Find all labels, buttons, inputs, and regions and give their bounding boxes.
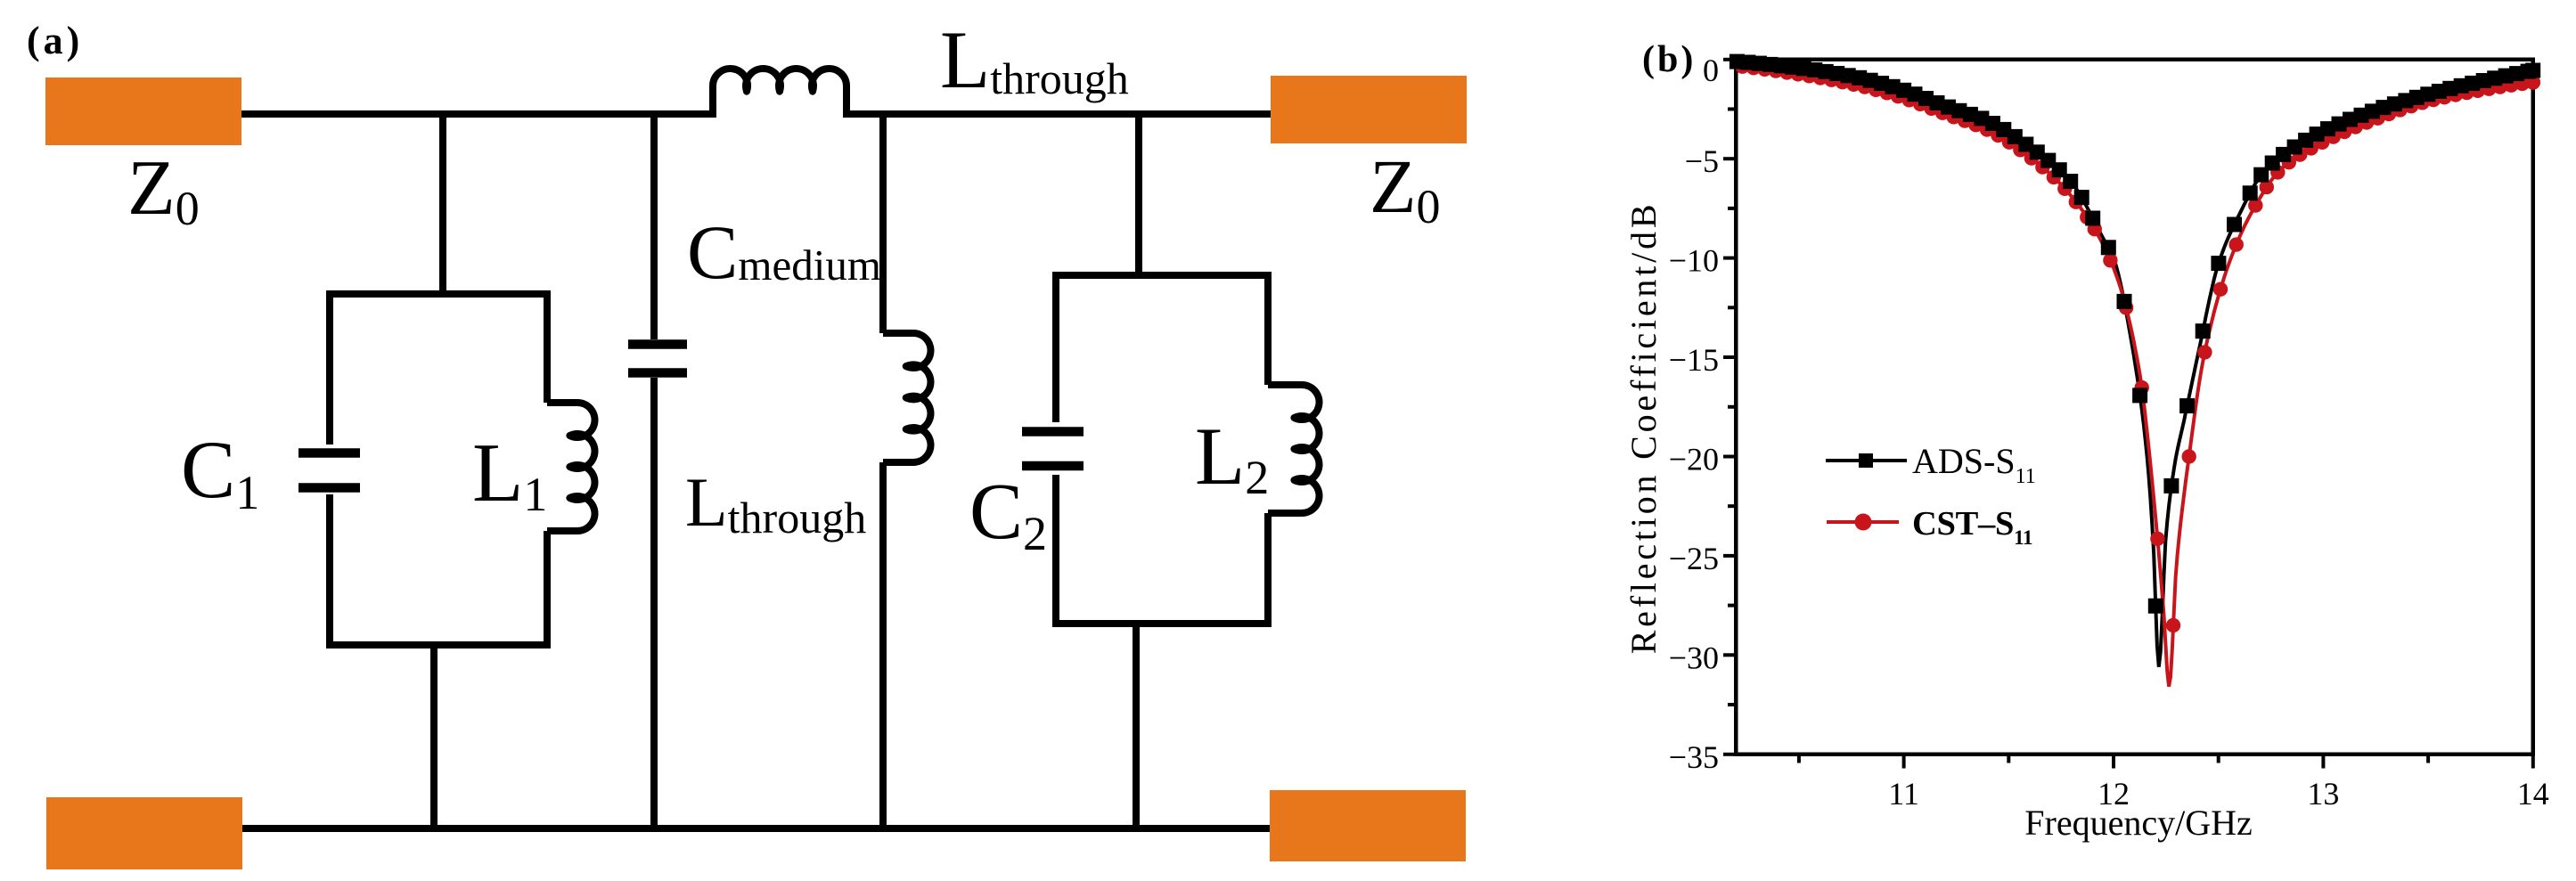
svg-text:0: 0	[1703, 53, 1719, 88]
y tick labels	[1669, 53, 1719, 775]
label Lthrough (shunt, middle)	[685, 463, 866, 542]
svg-text:Frequency/GHz: Frequency/GHz	[2024, 803, 2252, 843]
svg-text:Z0: Z0	[1370, 143, 1441, 233]
capacitor-inductor tank C2 L2 frame	[1056, 275, 1268, 624]
y axis minor ticks	[1728, 109, 1734, 705]
ground pad (bottom-left)	[46, 797, 242, 869]
legend CST-S11	[1827, 505, 2032, 549]
svg-text:C1: C1	[181, 424, 259, 519]
curve ADS-S11 (black line)	[1736, 61, 2533, 667]
port P1 microstrip pad (top-left)	[45, 77, 241, 145]
capacitor C2 plates	[1022, 432, 1084, 467]
shunt capacitor Cmedium branch	[650, 114, 658, 828]
svg-text:Z0: Z0	[127, 145, 200, 235]
svg-text:−30: −30	[1669, 640, 1719, 675]
svg-text:L1: L1	[472, 427, 547, 521]
shunt inductor Lthrough branch	[879, 114, 887, 828]
label Cmedium	[687, 209, 881, 295]
inductor L1 (coil)	[547, 403, 595, 531]
shunt inductor Lthrough (coil)	[883, 333, 931, 462]
svg-text:−35: −35	[1669, 739, 1719, 775]
svg-text:−20: −20	[1669, 442, 1719, 477]
svg-text:14: 14	[2517, 776, 2549, 812]
curve CST-S11 markers (red circles)	[1735, 60, 2540, 633]
svg-text:ADS-S11: ADS-S11	[1912, 441, 2036, 488]
wire node stub to C1-L1 tank	[439, 114, 446, 298]
label C2	[969, 468, 1047, 560]
svg-text:Cmedium: Cmedium	[687, 209, 881, 295]
capacitor Cmedium plates	[628, 345, 687, 373]
figure label (b)	[1642, 39, 1696, 80]
svg-text:−15: −15	[1669, 342, 1719, 378]
label Z0 (left port)	[127, 145, 200, 235]
plot frame	[1736, 60, 2533, 755]
label Z0 (right port)	[1370, 143, 1441, 233]
svg-text:Reflection Coefficient/dB: Reflection Coefficient/dB	[1623, 201, 1664, 655]
wire bottom rail	[242, 825, 1270, 832]
x axis title	[2024, 803, 2252, 843]
svg-text:Lthrough: Lthrough	[685, 463, 866, 542]
capacitor-inductor tank C1 L1 frame	[330, 294, 547, 645]
legend ADS-S11	[1826, 441, 2036, 488]
x axis minor ticks	[1799, 756, 2428, 763]
label C1	[181, 424, 259, 519]
wires: top rail, bottom rail, junction stubs	[241, 114, 1271, 828]
svg-text:(a): (a)	[27, 19, 83, 62]
svg-text:11: 11	[1888, 776, 1919, 812]
x tick labels	[1888, 776, 2549, 812]
figure label (a)	[27, 19, 83, 62]
label L1	[472, 427, 547, 521]
capacitor C1 plates	[298, 453, 360, 488]
wire node stub to C2-L2 tank	[1135, 114, 1142, 278]
svg-text:Lthrough: Lthrough	[940, 14, 1129, 105]
wire top rail left segment	[241, 110, 716, 118]
wire stub C2-L2 tank to bottom rail	[1133, 624, 1140, 828]
wire top rail right segment	[843, 110, 1271, 118]
svg-text:−10: −10	[1669, 243, 1719, 279]
y axis title	[1623, 201, 1664, 655]
svg-text:−5: −5	[1685, 143, 1719, 179]
series inductor Lthrough (top rail)	[713, 69, 846, 114]
wire stub C1-L1 tank to bottom rail	[430, 645, 438, 828]
x axis major ticks	[1904, 756, 2533, 769]
ground pad (bottom-right)	[1270, 790, 1466, 861]
inductor L2 (coil)	[1268, 385, 1320, 513]
svg-text:C2: C2	[969, 468, 1047, 560]
svg-text:−25: −25	[1669, 541, 1719, 576]
curve CST-S11 (red line)	[1736, 66, 2533, 687]
label Lthrough (series, top)	[940, 14, 1129, 105]
svg-text:(b): (b)	[1642, 39, 1696, 80]
y axis major ticks	[1723, 60, 1734, 755]
svg-text:13: 13	[2307, 776, 2339, 812]
svg-text:L2: L2	[1195, 411, 1269, 504]
port P2 microstrip pad (top-right)	[1271, 76, 1467, 143]
svg-text:CST–S11: CST–S11	[1912, 505, 2032, 549]
label L2	[1195, 411, 1269, 504]
curve ADS-S11 markers (black squares)	[1730, 54, 2540, 614]
